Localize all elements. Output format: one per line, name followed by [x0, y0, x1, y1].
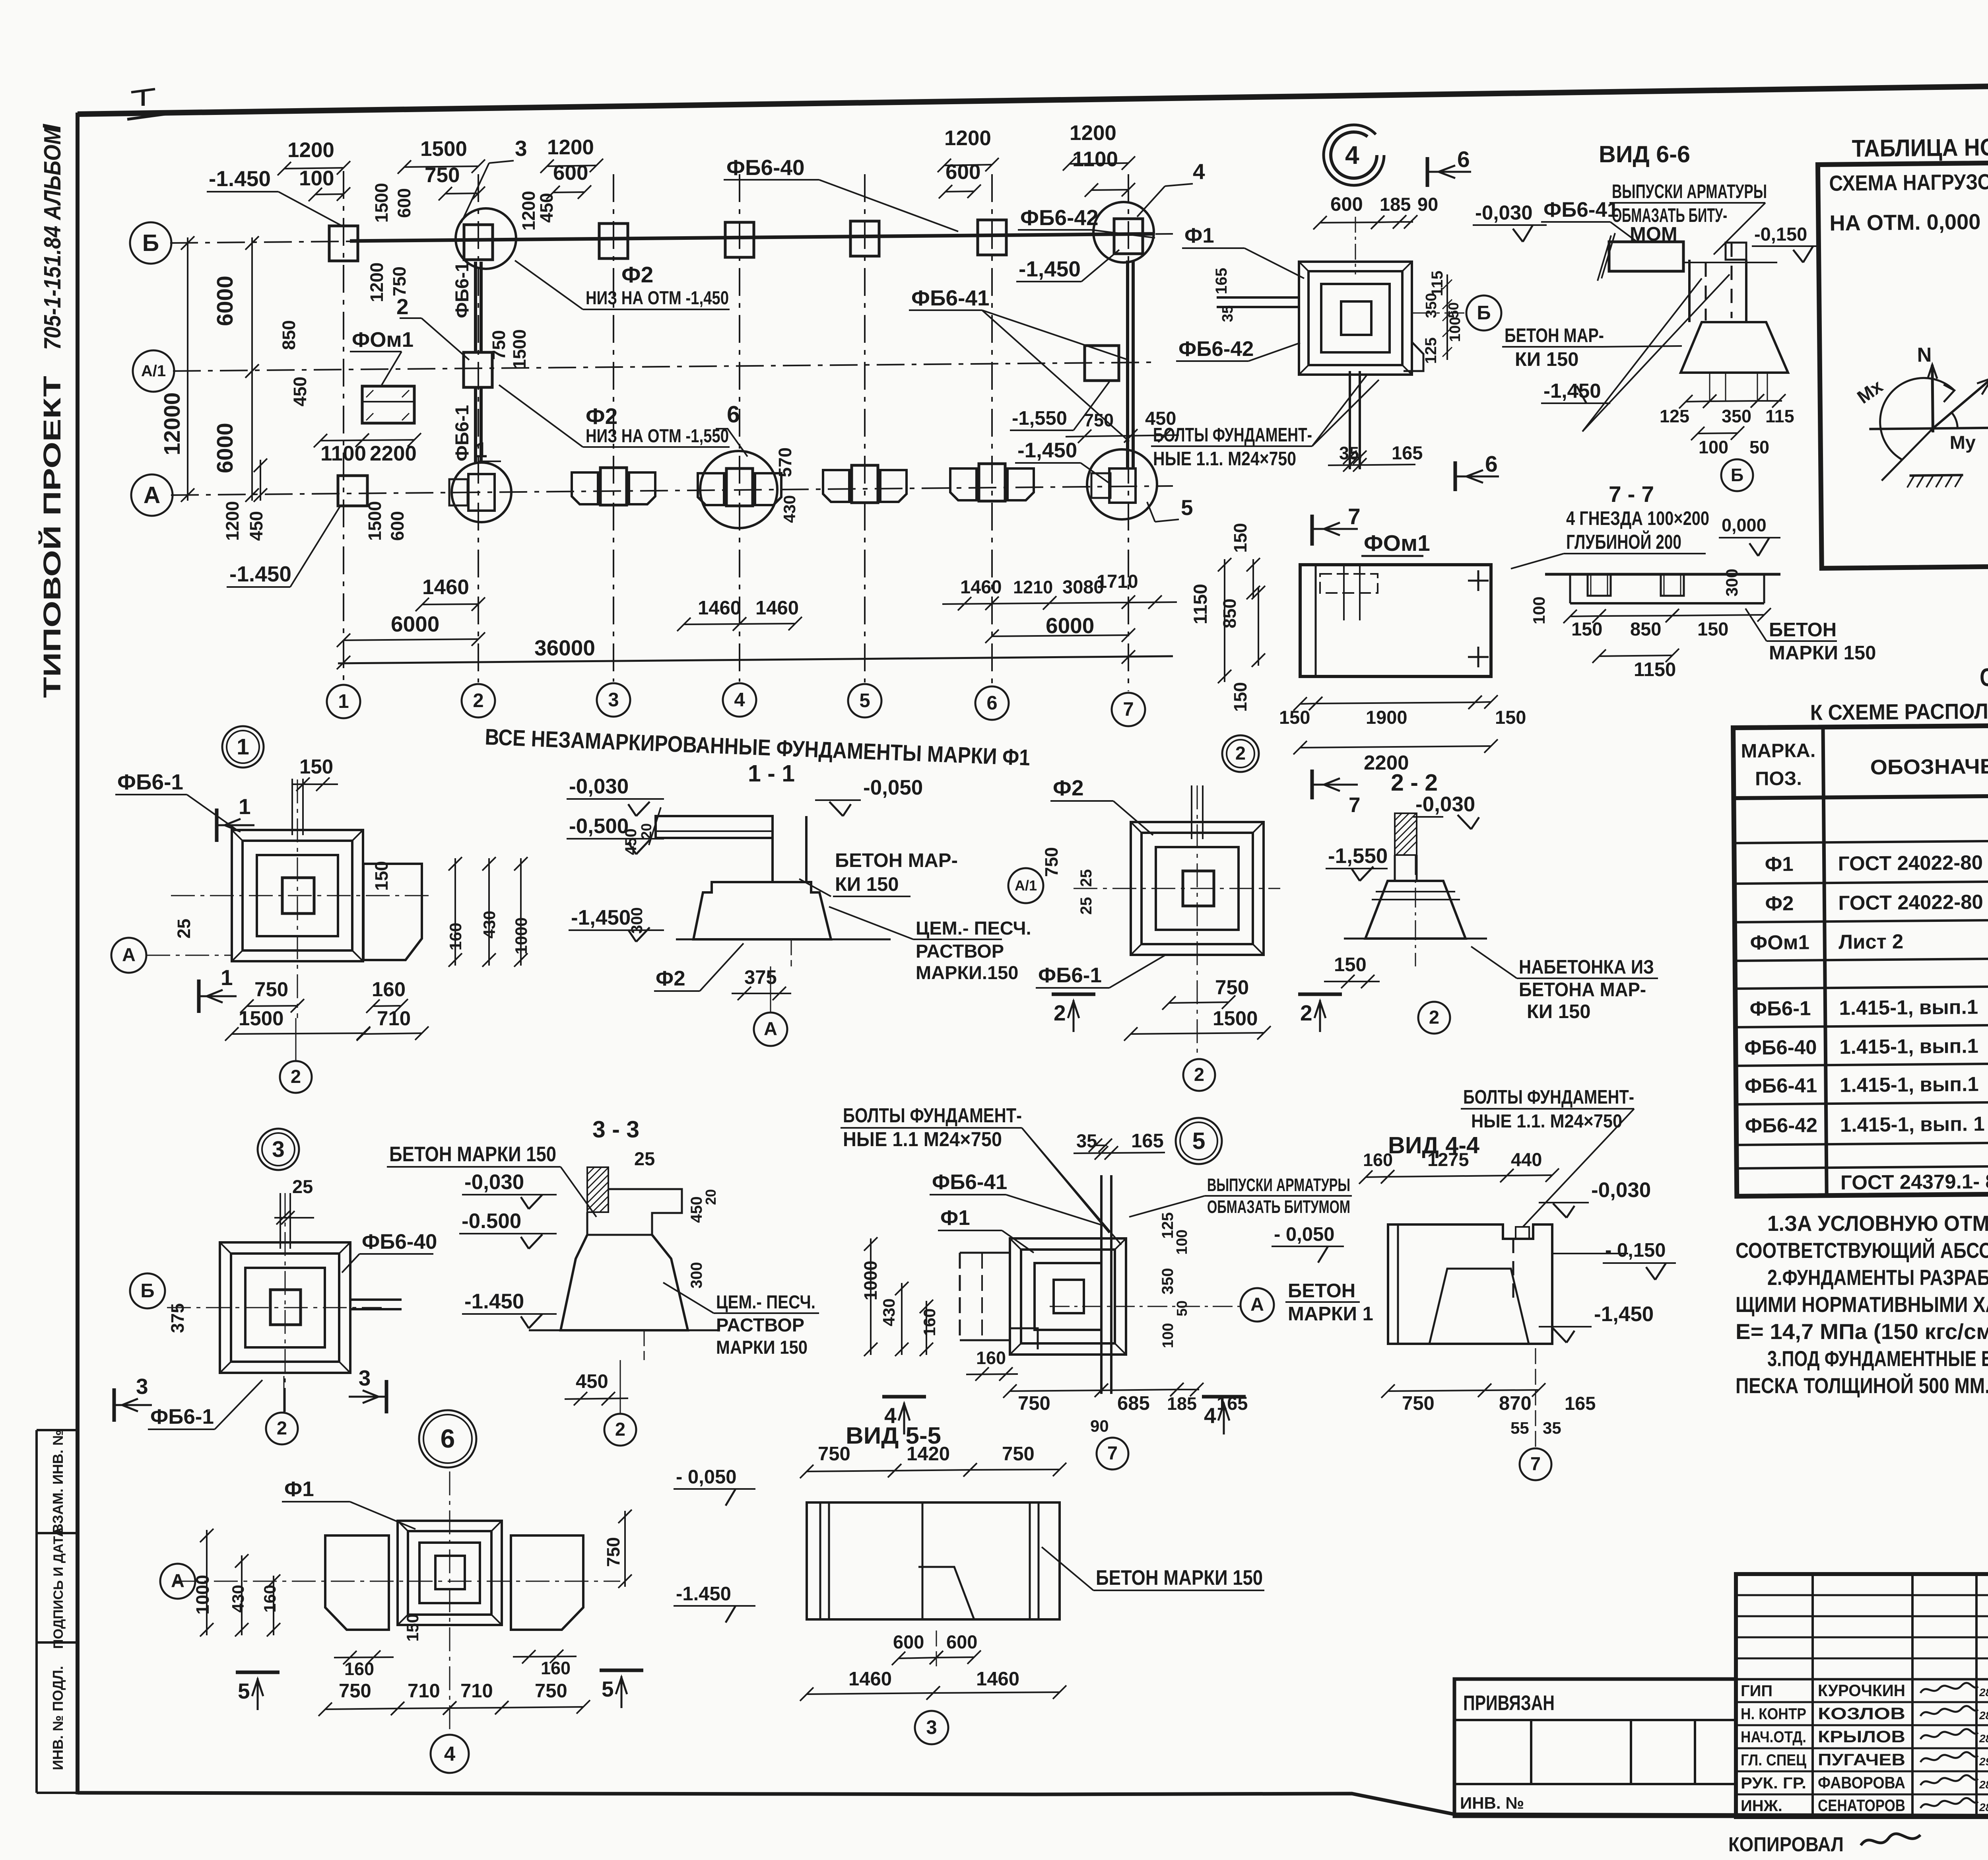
svg-text:4: 4 — [1345, 141, 1359, 169]
svg-text:НИЗ НА ОТМ -1,450: НИЗ НА ОТМ -1,450 — [586, 287, 729, 308]
svg-text:ЦЕМ.- ПЕСЧ.: ЦЕМ.- ПЕСЧ. — [916, 917, 1031, 939]
svg-text:750: 750 — [389, 266, 410, 296]
svg-text:710: 710 — [408, 1680, 440, 1702]
svg-text:-1.450: -1.450 — [676, 1583, 731, 1605]
svg-text:28.2.84: 28.2.84 — [1979, 1801, 1988, 1813]
svg-text:750: 750 — [339, 1680, 371, 1702]
svg-text:1150: 1150 — [1190, 584, 1211, 624]
svg-text:50: 50 — [1174, 1300, 1190, 1316]
svg-text:1200: 1200 — [1070, 121, 1116, 145]
svg-text:ГОСТ 24022-80: ГОСТ 24022-80 — [1838, 851, 1983, 875]
svg-text:160: 160 — [1363, 1150, 1393, 1170]
svg-text:БЕТОН МАРКИ 150: БЕТОН МАРКИ 150 — [1096, 1566, 1263, 1590]
svg-text:6: 6 — [727, 401, 740, 428]
svg-text:50: 50 — [1445, 302, 1462, 318]
svg-text:750: 750 — [425, 163, 460, 187]
svg-text:КРЫЛОВ: КРЫЛОВ — [1818, 1727, 1905, 1746]
svg-text:55: 55 — [1510, 1419, 1529, 1437]
svg-text:ФБ6-40: ФБ6-40 — [726, 155, 805, 180]
svg-text:165: 165 — [1392, 442, 1423, 463]
svg-text:100: 100 — [1530, 597, 1548, 624]
svg-text:150: 150 — [1334, 954, 1367, 976]
svg-text:БЕТОН: БЕТОН — [1769, 619, 1837, 641]
svg-text:ОБМАЗАТЬ БИТУМОМ: ОБМАЗАТЬ БИТУМОМ — [1207, 1197, 1350, 1217]
svg-text:НА ОТМ. 0,000: НА ОТМ. 0,000 — [1829, 209, 1981, 235]
svg-text:ВЫПУСКИ АРМАТУРЫ: ВЫПУСКИ АРМАТУРЫ — [1612, 181, 1767, 202]
svg-text:2200: 2200 — [370, 442, 417, 465]
svg-text:150: 150 — [1279, 707, 1310, 728]
svg-text:3: 3 — [926, 1717, 937, 1738]
svg-text:КОПИРОВАЛ: КОПИРОВАЛ — [1728, 1833, 1844, 1856]
svg-text:115: 115 — [1765, 406, 1794, 426]
svg-text:1000: 1000 — [512, 917, 530, 954]
svg-text:ФБ6-42: ФБ6-42 — [1745, 1114, 1818, 1137]
svg-text:Б: Б — [1731, 465, 1743, 485]
svg-text:36000: 36000 — [534, 636, 595, 660]
svg-text:- 0,150: - 0,150 — [1605, 1240, 1666, 1261]
svg-text:-1,450: -1,450 — [1019, 257, 1081, 281]
svg-text:430: 430 — [229, 1585, 247, 1613]
svg-text:-0,050: -0,050 — [863, 776, 923, 799]
svg-text:160: 160 — [920, 1308, 939, 1336]
svg-text:КУРОЧКИН: КУРОЧКИН — [1818, 1681, 1905, 1700]
svg-text:160: 160 — [541, 1658, 571, 1678]
svg-text:-1,450: -1,450 — [1017, 439, 1077, 462]
svg-text:1500: 1500 — [365, 501, 385, 541]
svg-text:750: 750 — [603, 1537, 623, 1567]
svg-text:1210: 1210 — [1013, 577, 1053, 597]
svg-text:600: 600 — [394, 188, 414, 218]
svg-text:160: 160 — [976, 1348, 1006, 1368]
svg-text:850: 850 — [1630, 618, 1661, 639]
svg-text:3: 3 — [272, 1137, 285, 1162]
svg-text:3 - 3: 3 - 3 — [592, 1116, 639, 1143]
svg-text:185: 185 — [1380, 194, 1411, 215]
svg-text:25: 25 — [292, 1176, 313, 1197]
svg-text:-0,030: -0,030 — [1475, 201, 1533, 224]
svg-text:Ф1: Ф1 — [284, 1477, 314, 1501]
svg-text:28.2.84: 28.2.84 — [1979, 1732, 1988, 1745]
svg-text:100: 100 — [1160, 1323, 1176, 1348]
svg-text:-1,550: -1,550 — [1328, 844, 1388, 868]
svg-text:ИНВ. № ПОДЛ.: ИНВ. № ПОДЛ. — [50, 1666, 66, 1770]
svg-text:1500: 1500 — [239, 1007, 283, 1030]
svg-text:ИНЖ.: ИНЖ. — [1741, 1797, 1782, 1815]
svg-text:165: 165 — [1213, 268, 1230, 294]
svg-text:БЕТОН МАР-: БЕТОН МАР- — [835, 850, 958, 871]
svg-text:ВИД 6-6: ВИД 6-6 — [1599, 141, 1690, 167]
svg-text:БЕТОНА МАР-: БЕТОНА МАР- — [1519, 979, 1646, 1001]
svg-text:20: 20 — [638, 823, 654, 839]
svg-text:ВЫПУСКИ АРМАТУРЫ: ВЫПУСКИ АРМАТУРЫ — [1207, 1175, 1350, 1195]
svg-text:2: 2 — [1235, 742, 1246, 764]
svg-text:685: 685 — [1117, 1393, 1150, 1414]
svg-text:БОЛТЫ ФУНДАМЕНТ-: БОЛТЫ ФУНДАМЕНТ- — [843, 1104, 1022, 1127]
svg-text:35: 35 — [1339, 443, 1359, 463]
svg-text:-1,450: -1,450 — [1543, 379, 1601, 402]
svg-text:450: 450 — [246, 511, 266, 541]
svg-text:КИ 150: КИ 150 — [1527, 1001, 1591, 1022]
svg-text:450: 450 — [576, 1371, 608, 1392]
svg-text:185: 185 — [1167, 1394, 1197, 1414]
svg-text:150: 150 — [1697, 618, 1728, 639]
svg-text:1500: 1500 — [509, 329, 530, 369]
svg-text:2: 2 — [1054, 1001, 1066, 1025]
svg-text:-1,550: -1,550 — [1012, 408, 1067, 429]
svg-text:ФБ6-41: ФБ6-41 — [1745, 1074, 1817, 1097]
svg-text:600: 600 — [1330, 194, 1363, 215]
svg-text:I: I — [37, 124, 66, 131]
svg-text:-0,150: -0,150 — [1754, 224, 1807, 245]
svg-text:7: 7 — [1348, 504, 1361, 529]
svg-text:ФАВОРОВА: ФАВОРОВА — [1818, 1773, 1905, 1792]
svg-text:7: 7 — [1107, 1442, 1118, 1464]
svg-text:-1.450: -1.450 — [209, 166, 271, 191]
svg-text:-0,030: -0,030 — [569, 775, 629, 798]
svg-text:750: 750 — [1018, 1393, 1050, 1414]
svg-text:НАБЕТОНКА ИЗ: НАБЕТОНКА ИЗ — [1519, 956, 1654, 978]
svg-text:440: 440 — [1511, 1149, 1542, 1170]
svg-text:100: 100 — [1699, 437, 1728, 457]
svg-text:МАРКИ 150: МАРКИ 150 — [716, 1337, 808, 1358]
svg-text:28.2.84: 28.2.84 — [1979, 1686, 1988, 1699]
svg-text:ФБ6-41: ФБ6-41 — [932, 1170, 1007, 1194]
svg-text:БЕТОН МАР-: БЕТОН МАР- — [1505, 325, 1604, 346]
svg-text:Ф1: Ф1 — [1184, 224, 1214, 247]
svg-text:1.415-1, вып.1: 1.415-1, вып.1 — [1840, 1073, 1979, 1096]
svg-text:ГЛ. СПЕЦ: ГЛ. СПЕЦ — [1741, 1751, 1806, 1769]
svg-text:6: 6 — [1457, 147, 1470, 172]
svg-text:90: 90 — [1090, 1417, 1109, 1435]
svg-text:3: 3 — [515, 136, 527, 161]
svg-text:ЩИМИ НОРМАТИВНЫМИ ХАРАКТЕРИСТИ: ЩИМИ НОРМАТИВНЫМИ ХАРАКТЕРИСТИКАМИ: Чн= … — [1736, 1292, 1988, 1317]
svg-text:1275: 1275 — [1427, 1149, 1469, 1170]
svg-text:ФБ6-1: ФБ6-1 — [117, 770, 183, 794]
svg-text:2: 2 — [291, 1066, 301, 1087]
svg-text:6: 6 — [441, 1424, 455, 1453]
svg-text:1.415-1, вып.1: 1.415-1, вып.1 — [1839, 995, 1978, 1019]
svg-text:6000: 6000 — [1046, 613, 1094, 638]
svg-text:750: 750 — [489, 330, 509, 360]
svg-text:1: 1 — [475, 437, 487, 462]
svg-text:А: А — [1250, 1294, 1264, 1315]
svg-text:ФБ6-42: ФБ6-42 — [1178, 337, 1254, 361]
svg-text:300: 300 — [688, 1262, 705, 1289]
svg-text:Н. КОНТР: Н. КОНТР — [1741, 1705, 1806, 1723]
svg-text:6: 6 — [1485, 451, 1498, 477]
svg-text:КИ 150: КИ 150 — [835, 874, 899, 895]
svg-text:ФБ6-1: ФБ6-1 — [451, 405, 472, 461]
svg-text:Ф1: Ф1 — [940, 1206, 970, 1230]
svg-text:165: 165 — [1131, 1130, 1164, 1152]
svg-text:4: 4 — [444, 1742, 456, 1765]
svg-text:1460: 1460 — [960, 576, 1002, 597]
svg-text:2: 2 — [277, 1417, 287, 1438]
svg-text:5: 5 — [1192, 1128, 1206, 1154]
svg-text:1: 1 — [239, 794, 251, 819]
svg-text:1500: 1500 — [371, 183, 392, 223]
svg-text:Ф2: Ф2 — [621, 262, 653, 288]
svg-text:1.ЗА УСЛОВНУЮ ОТМ. 0,000 ПРИН: 1.ЗА УСЛОВНУЮ ОТМ. 0,000 ПРИНЯТ УРОВЕНЬ … — [1767, 1211, 1988, 1236]
svg-text:А: А — [764, 1018, 777, 1039]
svg-text:1000: 1000 — [860, 1261, 881, 1300]
svg-text:1100: 1100 — [320, 442, 366, 465]
svg-text:1200: 1200 — [367, 262, 387, 302]
svg-text:ПЕСКА ТОЛЩИНОЙ 500 ММ.: ПЕСКА ТОЛЩИНОЙ 500 ММ. — [1736, 1373, 1988, 1398]
svg-text:150: 150 — [371, 861, 392, 891]
svg-text:КИ 150: КИ 150 — [1515, 349, 1579, 370]
svg-text:1: 1 — [338, 691, 349, 712]
svg-text:А: А — [171, 1570, 184, 1591]
svg-text:1460: 1460 — [755, 597, 799, 619]
svg-text:350: 350 — [1423, 293, 1440, 318]
svg-text:150: 150 — [403, 1614, 422, 1642]
svg-text:4: 4 — [1204, 1403, 1216, 1428]
svg-text:-0,030: -0,030 — [464, 1170, 524, 1194]
svg-text:1420: 1420 — [907, 1443, 950, 1465]
svg-text:160: 160 — [446, 923, 465, 950]
svg-text:7: 7 — [1349, 793, 1360, 817]
svg-text:-0,500: -0,500 — [569, 814, 629, 838]
svg-text:НАЧ.ОТД.: НАЧ.ОТД. — [1741, 1728, 1806, 1746]
svg-text:750: 750 — [254, 978, 288, 1001]
svg-text:750: 750 — [1084, 410, 1114, 430]
svg-text:1.415-1, вып.1: 1.415-1, вып.1 — [1839, 1034, 1978, 1058]
svg-text:850: 850 — [1219, 599, 1240, 628]
svg-text:600: 600 — [387, 511, 408, 541]
svg-text:20: 20 — [703, 1189, 719, 1205]
svg-text:115: 115 — [1429, 270, 1446, 296]
svg-text:5: 5 — [602, 1677, 614, 1701]
svg-text:2: 2 — [615, 1419, 625, 1440]
svg-text:-0,030: -0,030 — [1415, 793, 1475, 816]
svg-text:ФБ6-40: ФБ6-40 — [362, 1230, 437, 1254]
svg-text:А: А — [122, 944, 136, 965]
svg-text:ФБ6-1: ФБ6-1 — [150, 1405, 214, 1429]
svg-text:-0,030: -0,030 — [1591, 1178, 1651, 1202]
svg-text:5: 5 — [238, 1679, 250, 1703]
svg-text:705-1-151.84 АЛЬБОМ: 705-1-151.84 АЛЬБОМ — [39, 126, 66, 350]
svg-text:29.2.84: 29.2.84 — [1979, 1755, 1988, 1768]
svg-text:ИНВ. №: ИНВ. № — [1460, 1794, 1524, 1812]
svg-text:ФБ6-1: ФБ6-1 — [1749, 997, 1811, 1020]
svg-text:7: 7 — [1530, 1453, 1541, 1474]
svg-text:3.ПОД ФУНДАМЕНТНЫЕ БАЛКИ ВЫПОЛ: 3.ПОД ФУНДАМЕНТНЫЕ БАЛКИ ВЫПОЛНИТЬ ПОДГО… — [1767, 1346, 1988, 1371]
svg-text:25: 25 — [634, 1148, 655, 1169]
svg-text:350: 350 — [1722, 406, 1751, 426]
svg-text:1200: 1200 — [547, 136, 594, 159]
svg-text:4: 4 — [1193, 159, 1205, 184]
svg-text:Му: Му — [1949, 431, 1976, 453]
svg-text:НЫЕ 1.1 М24×750: НЫЕ 1.1 М24×750 — [843, 1128, 1002, 1151]
svg-text:ОБМАЗАТЬ БИТУ-: ОБМАЗАТЬ БИТУ- — [1612, 205, 1727, 226]
svg-text:РАСТВОР: РАСТВОР — [716, 1314, 804, 1335]
svg-text:710: 710 — [377, 1007, 411, 1030]
svg-text:6: 6 — [986, 692, 997, 714]
svg-text:750: 750 — [818, 1443, 850, 1465]
svg-text:-1,450: -1,450 — [571, 906, 631, 929]
svg-text:НИЗ НА ОТМ -1,550: НИЗ НА ОТМ -1,550 — [586, 425, 729, 446]
svg-text:ВЗАМ. ИНВ. №: ВЗАМ. ИНВ. № — [50, 1430, 66, 1534]
svg-text:1: 1 — [221, 965, 233, 990]
svg-text:150: 150 — [1230, 523, 1250, 553]
svg-text:ОБОЗНАЧЕНИЕ: ОБОЗНАЧЕНИЕ — [1870, 754, 1988, 779]
svg-text:4 ГНЕЗДА 100×200: 4 ГНЕЗДА 100×200 — [1566, 508, 1709, 529]
svg-text:БОЛТЫ ФУНДАМЕНТ-: БОЛТЫ ФУНДАМЕНТ- — [1153, 424, 1312, 446]
svg-text:90: 90 — [1417, 194, 1438, 215]
svg-text:450: 450 — [290, 377, 310, 406]
svg-text:-1,450: -1,450 — [1594, 1302, 1654, 1326]
svg-text:ГЛУБИНОЙ 200: ГЛУБИНОЙ 200 — [1566, 530, 1681, 553]
svg-text:600: 600 — [946, 1631, 977, 1652]
svg-text:850: 850 — [279, 320, 299, 350]
svg-text:ФБ6-1: ФБ6-1 — [1038, 964, 1102, 987]
svg-text:2: 2 — [1194, 1064, 1204, 1085]
svg-text:1900: 1900 — [1366, 707, 1408, 728]
svg-text:МАРКИ 1: МАРКИ 1 — [1288, 1303, 1373, 1325]
svg-text:750: 750 — [1215, 976, 1249, 999]
svg-text:600: 600 — [893, 1631, 924, 1652]
svg-text:ПОДПИСЬ И ДАТА: ПОДПИСЬ И ДАТА — [51, 1527, 66, 1649]
svg-text:-0.500: -0.500 — [462, 1209, 521, 1233]
svg-text:1200: 1200 — [287, 138, 334, 162]
svg-text:160: 160 — [260, 1585, 279, 1613]
svg-text:1200: 1200 — [944, 126, 991, 150]
svg-text:ЦЕМ.- ПЕСЧ.: ЦЕМ.- ПЕСЧ. — [716, 1291, 815, 1312]
svg-text:6000: 6000 — [212, 276, 238, 326]
svg-text:2200: 2200 — [1364, 751, 1409, 774]
svg-text:1500: 1500 — [1213, 1007, 1258, 1030]
svg-text:300: 300 — [628, 907, 646, 934]
svg-text:МАРКА.: МАРКА. — [1741, 740, 1815, 762]
svg-text:СХЕМА НАГРУЗОК: СХЕМА НАГРУЗОК — [1829, 169, 1988, 196]
svg-text:НЫЕ 1.1. М24×750: НЫЕ 1.1. М24×750 — [1153, 448, 1296, 470]
svg-text:ПРИВЯЗАН: ПРИВЯЗАН — [1463, 1691, 1555, 1715]
svg-text:35: 35 — [1543, 1419, 1561, 1437]
svg-text:150: 150 — [1571, 618, 1602, 639]
svg-text:МАРКИ.150: МАРКИ.150 — [916, 962, 1018, 983]
svg-text:6000: 6000 — [391, 612, 439, 636]
svg-text:1710: 1710 — [1097, 571, 1138, 592]
svg-text:375: 375 — [167, 1303, 188, 1333]
svg-text:1 - 1: 1 - 1 — [748, 760, 795, 787]
svg-text:Б: Б — [142, 230, 159, 256]
svg-text:4: 4 — [734, 689, 745, 711]
svg-text:125: 125 — [1422, 337, 1440, 364]
svg-text:1500: 1500 — [420, 137, 467, 161]
svg-text:150: 150 — [1230, 682, 1250, 712]
svg-text:430: 430 — [879, 1298, 898, 1326]
svg-text:ГИП: ГИП — [1741, 1682, 1773, 1700]
svg-text:750: 750 — [535, 1680, 567, 1702]
svg-text:35: 35 — [1076, 1130, 1097, 1151]
svg-text:Ф2: Ф2 — [1053, 775, 1084, 800]
svg-text:710: 710 — [460, 1680, 493, 1702]
svg-text:ПОЗ.: ПОЗ. — [1755, 768, 1802, 790]
svg-text:2: 2 — [396, 294, 409, 319]
svg-text:Б: Б — [1477, 302, 1491, 324]
svg-text:25: 25 — [174, 919, 194, 939]
svg-text:ПУГАЧЕВ: ПУГАЧЕВ — [1818, 1750, 1905, 1769]
svg-text:МАРКИ 150: МАРКИ 150 — [1769, 642, 1876, 664]
svg-text:375: 375 — [744, 967, 777, 988]
svg-text:7: 7 — [1123, 699, 1134, 720]
svg-text:1460: 1460 — [976, 1668, 1019, 1690]
svg-text:125: 125 — [1660, 406, 1689, 426]
svg-text:600: 600 — [553, 161, 588, 185]
svg-text:ФБ6-41: ФБ6-41 — [1543, 198, 1619, 222]
svg-text:НЫЕ 1.1. М24×750: НЫЕ 1.1. М24×750 — [1471, 1110, 1622, 1131]
svg-text:БЕТОН: БЕТОН — [1288, 1280, 1355, 1302]
svg-text:РУК. ГР.: РУК. ГР. — [1741, 1774, 1806, 1792]
svg-text:А/1: А/1 — [141, 362, 166, 380]
svg-text:7 - 7: 7 - 7 — [1609, 482, 1654, 507]
svg-text:ФБ6-40: ФБ6-40 — [1744, 1036, 1817, 1059]
svg-text:100: 100 — [1447, 317, 1464, 342]
svg-text:35: 35 — [1219, 305, 1236, 322]
svg-text:3: 3 — [608, 689, 619, 711]
svg-text:ФОм1: ФОм1 — [352, 328, 414, 352]
svg-text:Б: Б — [140, 1280, 154, 1302]
svg-text:100: 100 — [1174, 1230, 1190, 1255]
svg-text:28.2.84: 28.2.84 — [1979, 1709, 1988, 1722]
svg-text:1100: 1100 — [1072, 148, 1118, 171]
svg-text:А: А — [144, 482, 161, 508]
svg-text:СООТВЕТСТВУЮЩИЙ АБСОЛЮТНОЙ О: СООТВЕТСТВУЮЩИЙ АБСОЛЮТНОЙ ОТМЕТКЕ НА МЕ… — [1736, 1238, 1988, 1263]
svg-text:2: 2 — [1429, 1007, 1439, 1028]
svg-text:1460: 1460 — [698, 597, 741, 619]
svg-text:А/1: А/1 — [1015, 877, 1037, 894]
svg-text:5: 5 — [1181, 495, 1193, 520]
svg-text:3: 3 — [359, 1366, 371, 1390]
svg-text:Ф1: Ф1 — [1765, 853, 1794, 876]
svg-text:750: 750 — [1002, 1443, 1035, 1465]
svg-text:БЕТОН МАРКИ 150: БЕТОН МАРКИ 150 — [389, 1143, 556, 1166]
svg-text:430: 430 — [780, 495, 799, 523]
svg-text:Лист 2: Лист 2 — [1839, 930, 1903, 953]
svg-text:750: 750 — [1041, 847, 1062, 877]
svg-text:165: 165 — [1565, 1393, 1596, 1414]
svg-text:870: 870 — [1499, 1393, 1532, 1414]
svg-text:6000: 6000 — [212, 423, 238, 473]
svg-text:БОЛТЫ ФУНДАМЕНТ-: БОЛТЫ ФУНДАМЕНТ- — [1463, 1086, 1634, 1108]
svg-text:- 0,050: - 0,050 — [676, 1466, 737, 1488]
svg-text:5: 5 — [859, 690, 870, 711]
svg-text:2: 2 — [1300, 1001, 1312, 1025]
svg-text:-1.450: -1.450 — [464, 1290, 524, 1313]
svg-text:Ф2: Ф2 — [656, 967, 685, 990]
svg-text:ГОСТ 24379.1- 80: ГОСТ 24379.1- 80 — [1840, 1170, 1988, 1194]
svg-text:25: 25 — [1077, 869, 1095, 887]
svg-text:Ф2: Ф2 — [1765, 892, 1794, 915]
svg-text:750: 750 — [1402, 1393, 1435, 1414]
svg-text:300: 300 — [1722, 569, 1741, 597]
svg-text:СЕНАТОРОВ: СЕНАТОРОВ — [1818, 1796, 1905, 1815]
svg-text:1200: 1200 — [222, 501, 243, 541]
svg-text:ФБ6-1: ФБ6-1 — [451, 262, 472, 318]
svg-text:430: 430 — [480, 911, 499, 939]
svg-text:СПЕЦИФИКАЦИЯ ЭЛЕМЕНТОВ: СПЕЦИФИКАЦИЯ ЭЛЕМЕНТОВ — [1980, 661, 1988, 692]
svg-text:25: 25 — [1077, 897, 1095, 915]
svg-text:КОЗЛОВ: КОЗЛОВ — [1818, 1704, 1905, 1723]
svg-text:Е= 14,7 МПа (150 кгс/см²) , Ј: Е= 14,7 МПа (150 кгс/см²) , Јн= 1,8 т/м³… — [1736, 1319, 1988, 1344]
svg-text:1200: 1200 — [518, 191, 539, 231]
svg-text:-1.450: -1.450 — [229, 562, 291, 586]
svg-text:- 0,050: - 0,050 — [1274, 1224, 1335, 1245]
svg-text:1150: 1150 — [1634, 659, 1676, 680]
svg-text:1.415-1, вып. 1: 1.415-1, вып. 1 — [1840, 1112, 1985, 1136]
svg-text:450: 450 — [536, 193, 557, 223]
